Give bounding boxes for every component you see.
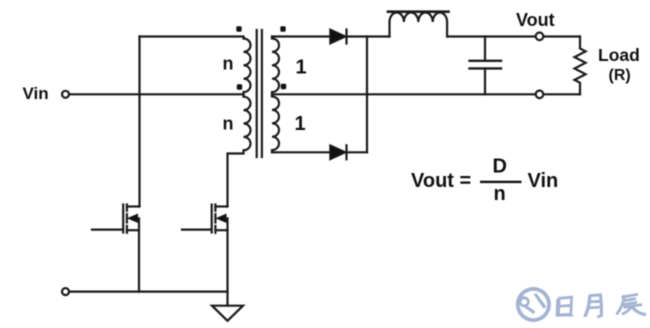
ground symbol xyxy=(212,306,243,321)
svg-text:Vin: Vin xyxy=(23,84,49,103)
polarity dot primary mid xyxy=(237,84,242,89)
wire secondary top to diode D1 xyxy=(272,35,330,37)
bottom return terminal (open circle) xyxy=(62,288,69,295)
svg-text:D: D xyxy=(493,156,507,178)
svg-text:n: n xyxy=(494,183,506,205)
transformer T1 secondary winding top (1) xyxy=(272,37,279,95)
svg-text:(R): (R) xyxy=(609,67,631,84)
capacitor C1 top lead xyxy=(484,37,486,61)
wire top-left rail xyxy=(140,35,244,37)
transformer T1 primary winding bottom (n) xyxy=(228,95,251,207)
load resistor R (zigzag) xyxy=(575,37,586,95)
svg-text:1: 1 xyxy=(296,57,307,79)
transformer T1 secondary winding bottom (1) xyxy=(272,95,279,153)
Vout terminal bottom (open circle) xyxy=(536,91,544,99)
wire Vin to primary center tap xyxy=(70,93,244,95)
inductor L1 xyxy=(388,12,449,37)
polarity dot secondary top xyxy=(280,26,285,31)
watermark logo xyxy=(516,287,551,322)
watermark tail stroke xyxy=(523,305,535,314)
Q1 gate lead xyxy=(92,229,122,231)
watermark outer ring xyxy=(516,287,551,322)
wire left branch vertical (to Q1 drain) xyxy=(138,37,140,207)
svg-text:n: n xyxy=(223,113,234,133)
svg-text:Vout =: Vout = xyxy=(411,170,471,192)
Q2 body arrow xyxy=(217,214,227,222)
diode D1 (top rectifier) xyxy=(330,29,390,44)
Q1 gate bar xyxy=(122,205,124,233)
diode D2 (bottom rectifier) xyxy=(330,145,367,160)
Q2 channel segments xyxy=(214,205,216,211)
polarity dot secondary mid xyxy=(281,84,286,89)
Q1 channel segments xyxy=(126,205,128,211)
capacitor C1 bottom lead xyxy=(484,68,486,94)
watermark character 月 xyxy=(583,293,603,318)
Q2 drain bend xyxy=(216,205,228,207)
watermark character 辰 xyxy=(617,294,647,315)
Q1 source connection xyxy=(127,229,139,231)
wire output top rail xyxy=(447,35,580,37)
Vin terminal (open circle) xyxy=(62,91,69,98)
Q1 drain bend xyxy=(127,205,140,207)
svg-text:1: 1 xyxy=(295,113,306,135)
equation Vout = D/n Vin xyxy=(411,156,558,205)
svg-text:Vout: Vout xyxy=(516,10,555,30)
MOSFET Q1 (left) xyxy=(92,205,140,292)
wire bottom return rail xyxy=(70,291,228,293)
watermark character 日 xyxy=(556,296,574,317)
transformer core lines xyxy=(256,30,258,157)
MOSFET Q2 (right) xyxy=(182,205,228,306)
polarity dot primary top xyxy=(236,26,241,31)
Q2 gate bar xyxy=(211,205,213,233)
svg-text:Load: Load xyxy=(598,45,640,65)
capacitor C1 plates xyxy=(470,61,502,69)
Q2 source connection xyxy=(216,229,228,231)
Q2 gate lead xyxy=(182,229,211,231)
svg-text:n: n xyxy=(223,54,234,74)
transformer T1 primary winding top (n) xyxy=(244,37,251,94)
wire secondary bottom to diode D2 xyxy=(272,151,330,153)
Q1 body arrow xyxy=(128,214,138,222)
watermark slash stroke xyxy=(534,293,547,309)
watermark small ring xyxy=(519,296,530,307)
svg-text:Vin: Vin xyxy=(528,170,559,192)
wire secondary center tap / output bottom rail xyxy=(272,93,580,95)
wire diode junction vertical xyxy=(366,37,368,153)
Vout terminal top (open circle) xyxy=(536,33,544,41)
